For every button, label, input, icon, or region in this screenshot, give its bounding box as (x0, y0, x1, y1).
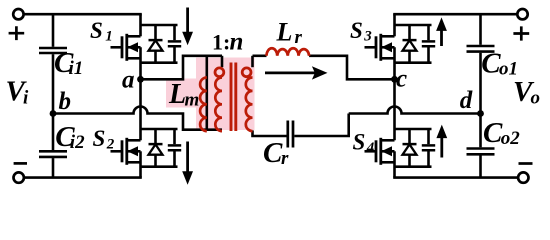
svg-text:b: b (59, 88, 72, 115)
svg-text:r: r (281, 148, 289, 169)
svg-text:S: S (353, 130, 366, 155)
svg-text:m: m (185, 90, 200, 111)
svg-text:c: c (396, 66, 407, 93)
svg-text:o: o (531, 88, 541, 109)
svg-text:L: L (168, 79, 186, 110)
svg-text:i1: i1 (69, 58, 84, 79)
svg-text:r: r (295, 27, 303, 48)
svg-text:o1: o1 (499, 58, 518, 79)
svg-text:S: S (90, 18, 103, 43)
svg-text:C: C (263, 137, 283, 169)
svg-text:4: 4 (366, 140, 375, 156)
svg-text:2: 2 (106, 137, 115, 153)
svg-text:1: 1 (105, 29, 113, 45)
svg-text:i2: i2 (70, 132, 85, 153)
svg-text:1:: 1: (212, 29, 230, 54)
svg-text:a: a (122, 66, 135, 93)
svg-text:L: L (276, 17, 293, 46)
svg-text:n: n (230, 28, 244, 55)
svg-text:S: S (350, 18, 363, 43)
svg-text:d: d (460, 87, 473, 114)
svg-text:o2: o2 (501, 128, 521, 149)
svg-text:3: 3 (363, 29, 372, 45)
svg-text:i: i (23, 88, 29, 109)
svg-text:S: S (93, 126, 106, 151)
